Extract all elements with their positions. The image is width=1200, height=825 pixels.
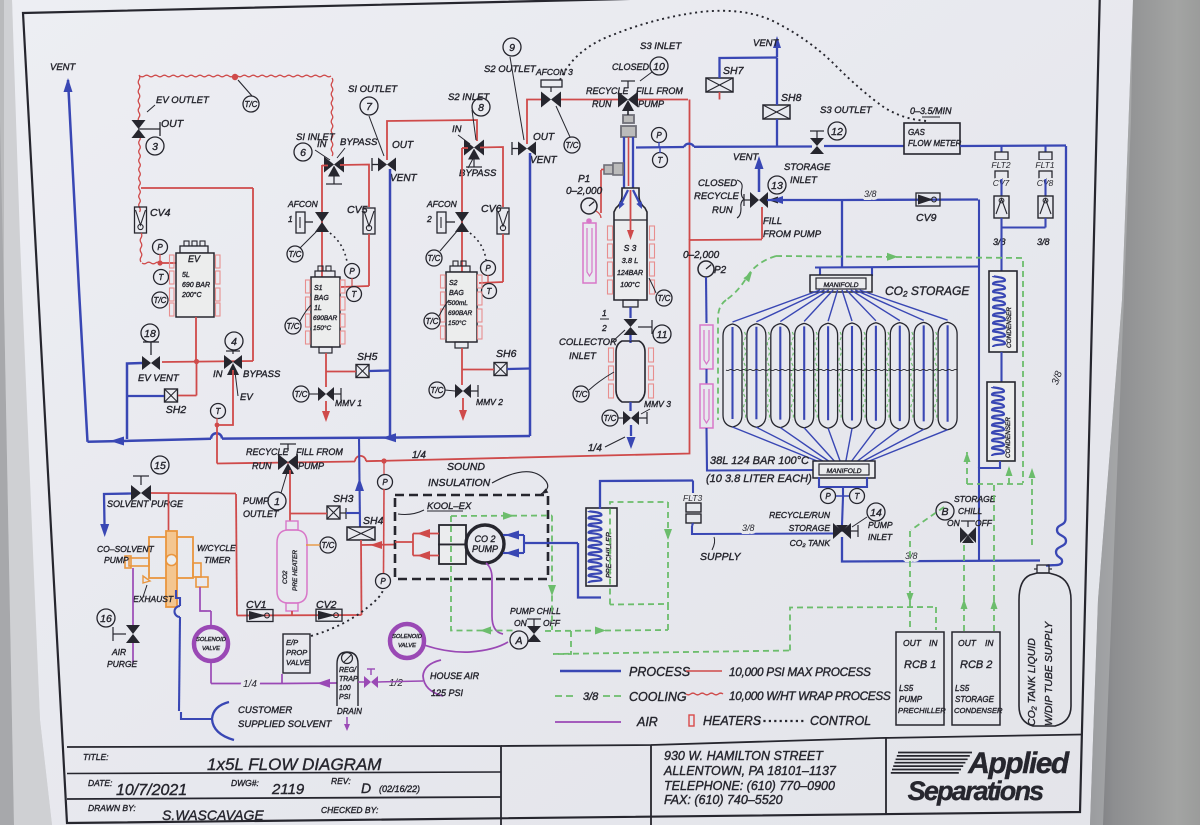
circle 15 (151, 456, 169, 474)
svg-text:PROCESS: PROCESS (629, 665, 691, 679)
pump blue arrows (514, 534, 524, 536)
solenoid2 from pump (486, 563, 503, 634)
circle A (510, 631, 528, 649)
svg-text:CV6: CV6 (481, 203, 502, 215)
CV5 check (363, 208, 375, 234)
svg-text:SH8: SH8 (781, 92, 802, 104)
svg-text:150°C: 150°C (448, 319, 466, 327)
svg-text:LS5: LS5 (955, 684, 970, 693)
svg-text:SUPPLY: SUPPLY (700, 551, 741, 563)
red tee to bypass (141, 187, 253, 189)
svg-text:AIR: AIR (636, 715, 658, 729)
EV vessel 5L (180, 246, 208, 253)
svg-text:IN: IN (985, 638, 994, 648)
valve 6 SI INLET (324, 157, 334, 173)
svg-text:CO₂ TANK: CO₂ TANK (790, 538, 831, 548)
AFCON1 control dots (330, 233, 347, 262)
P1 gauge line (600, 170, 602, 213)
svg-text:690BAR: 690BAR (313, 315, 338, 322)
pump block (439, 525, 466, 545)
svg-text:12: 12 (831, 126, 843, 138)
svg-text:DATE:: DATE: (88, 778, 113, 788)
storage supply drop (978, 267, 980, 469)
svg-text:PUMP: PUMP (298, 461, 324, 471)
svg-text:11: 11 (657, 329, 668, 341)
valve15 red (151, 492, 236, 495)
circle 6 (294, 143, 312, 161)
house air arc (423, 660, 443, 696)
valve 11 collector inlet (624, 319, 638, 327)
svg-text:FROM PUMP: FROM PUMP (763, 229, 822, 240)
svg-text:SH3: SH3 (333, 493, 354, 505)
svg-text:SUPPLIED SOLVENT: SUPPLIED SOLVENT (238, 719, 333, 730)
valve 4 stem (232, 351, 234, 354)
svg-text:690 BAR: 690 BAR (182, 282, 210, 289)
valve 1 recycle (278, 454, 288, 470)
P T insts S3 (652, 128, 667, 143)
svg-text:SOLENOID: SOLENOID (196, 637, 226, 643)
svg-text:BYPASS: BYPASS (459, 168, 497, 179)
svg-text:T/C: T/C (431, 386, 444, 395)
svg-text:S3 OUTLET: S3 OUTLET (820, 105, 873, 116)
CV4 check valve (135, 207, 147, 233)
svg-text:T/C: T/C (428, 254, 441, 263)
red fill drop (689, 100, 691, 241)
SH7 blue up (720, 58, 778, 79)
circle 8 (472, 98, 490, 116)
SH2 blue link (127, 395, 164, 397)
SH8 blue links (776, 58, 778, 105)
blue EV vent pipe (127, 363, 142, 439)
svg-text:ON: ON (947, 518, 961, 528)
liquid level zigzag (726, 369, 957, 370)
svg-text:VALVE: VALVE (202, 646, 220, 652)
svg-text:1x5L FLOW DIAGRAM: 1x5L FLOW DIAGRAM (207, 755, 382, 774)
manifold bottom box (813, 461, 875, 478)
collector tube magenta dot (586, 218, 592, 224)
svg-text:1: 1 (288, 214, 293, 224)
svg-text:SOUND: SOUND (447, 461, 485, 473)
SH6 heater (494, 363, 507, 376)
CO2 tank vessel (1019, 573, 1071, 726)
pump left air (132, 568, 134, 625)
svg-text:T/C: T/C (575, 390, 588, 399)
svg-text:PSI: PSI (339, 694, 350, 701)
circle 4 (225, 332, 243, 350)
valve1 down red (289, 470, 291, 521)
svg-text:P: P (825, 492, 831, 501)
SH7 red down (719, 92, 721, 100)
SH8 heater (763, 105, 790, 119)
svg-text:0–2,000: 0–2,000 (683, 250, 720, 261)
SH5 links (326, 371, 356, 373)
svg-text:RECYCLE: RECYCLE (246, 447, 290, 457)
svg-text:BYPASS: BYPASS (243, 369, 281, 380)
valve 3 EV OUTLET (132, 120, 146, 129)
svg-text:PUMP: PUMP (104, 555, 129, 565)
pump air out (200, 587, 207, 611)
svg-text:OUT: OUT (392, 140, 414, 151)
svg-text:HEATERS: HEATERS (703, 714, 762, 728)
svg-text:BAG: BAG (314, 295, 329, 302)
svg-text:125 PSI: 125 PSI (431, 688, 464, 698)
P inst EV (153, 240, 168, 255)
svg-text:1/4: 1/4 (243, 679, 257, 690)
SH5 heater (356, 365, 369, 378)
svg-text:2: 2 (601, 323, 607, 333)
condenser 2 (987, 382, 1015, 461)
svg-text:COLLECTOR: COLLECTOR (559, 337, 617, 348)
title block grid (67, 746, 501, 825)
svg-text:4: 4 (231, 336, 237, 348)
svg-text:SH7: SH7 (723, 65, 745, 77)
S3 fitting stack (623, 115, 634, 123)
circle 16 (97, 609, 115, 627)
MMV1 valve (318, 387, 326, 401)
svg-text:INLET: INLET (868, 532, 893, 542)
svg-text:FLT1: FLT1 (1035, 160, 1054, 170)
air to regtrap (282, 682, 337, 685)
svg-text:FLOW METER: FLOW METER (908, 139, 962, 148)
svg-text:PURGE: PURGE (107, 659, 138, 669)
svg-text:MMV 2: MMV 2 (476, 397, 503, 407)
VENT arrow SH7 (776, 45, 778, 58)
svg-text:2119: 2119 (271, 781, 305, 798)
CV line (237, 614, 362, 617)
svg-text:MMV 3: MMV 3 (644, 399, 671, 409)
svg-text:3/8: 3/8 (742, 523, 755, 533)
svg-text:DRAIN: DRAIN (337, 707, 362, 716)
gas flow meter box (904, 123, 960, 154)
svg-text:1/4: 1/4 (588, 443, 602, 454)
S2 bottom red (461, 348, 463, 385)
svg-text:VENT: VENT (390, 173, 418, 184)
svg-text:10,000 PSI MAX PROCESS: 10,000 PSI MAX PROCESS (729, 665, 871, 679)
svg-text:P: P (380, 577, 386, 586)
svg-text:3.8 L: 3.8 L (622, 256, 639, 265)
svg-text:14: 14 (870, 507, 882, 519)
circle 14 (867, 503, 885, 521)
circle 11 (653, 325, 671, 343)
valve 8 S2 INLET (464, 140, 474, 156)
P inst control (376, 574, 391, 589)
heat-wrapped line left (138, 75, 140, 122)
T/C instrument top (243, 96, 259, 112)
svg-text:EV: EV (188, 254, 201, 264)
pump return riser (359, 438, 360, 527)
svg-text:CO₂ TANK LIQUID: CO₂ TANK LIQUID (1026, 638, 1038, 726)
circle 18 (141, 324, 159, 342)
svg-text:CHILL: CHILL (958, 506, 982, 516)
FLT2 filter (1000, 146, 1002, 152)
svg-text:930 W. HAMILTON STREET: 930 W. HAMILTON STREET (664, 749, 824, 763)
svg-text:13: 13 (771, 180, 783, 192)
heat wrap below CV4 (140, 233, 142, 262)
svg-text:500mL: 500mL (448, 300, 468, 307)
svg-text:VALVE: VALVE (398, 643, 416, 649)
CV6 check (497, 208, 509, 234)
condenser feed (1000, 228, 1002, 272)
S1 inlet red (321, 165, 323, 278)
svg-text:RUN: RUN (252, 461, 272, 471)
circle 7 (360, 97, 378, 115)
valve B (960, 527, 968, 543)
svg-text:FLT3: FLT3 (683, 493, 702, 503)
heat-wrapped line top (140, 75, 331, 77)
svg-text:T/C: T/C (295, 390, 308, 399)
svg-text:CONDENSER: CONDENSER (1005, 417, 1012, 458)
EP air link (281, 674, 283, 684)
svg-text:FILL FROM: FILL FROM (296, 447, 343, 457)
S3 bottom stub (623, 300, 638, 307)
MMV3 outflow (630, 425, 632, 436)
tube down to manifold (707, 428, 819, 471)
manifold fan lines (733, 290, 821, 322)
svg-text:RECYCLE: RECYCLE (586, 86, 630, 96)
T/C preheater (320, 537, 336, 553)
svg-text:0–3.5/MIN: 0–3.5/MIN (910, 106, 952, 116)
T/C inst EV (152, 292, 168, 308)
svg-text:TITLE:: TITLE: (83, 752, 109, 762)
svg-text:3/8: 3/8 (993, 237, 1006, 247)
valve 4 IN BYPASS (224, 355, 233, 369)
svg-text:CUSTOMER: CUSTOMER (238, 705, 292, 716)
T inst S1 (347, 287, 362, 302)
chiller top blue (600, 481, 693, 510)
SH3 red link (290, 513, 327, 515)
customer solvent arc (212, 702, 234, 740)
svg-text:INSULATION: INSULATION (428, 477, 491, 489)
pre chiller box (586, 508, 617, 586)
svg-text:IN: IN (452, 124, 462, 135)
condenser out (979, 461, 1000, 561)
svg-text:REV:: REV: (331, 776, 351, 786)
T inst near valve4 (211, 404, 226, 419)
svg-text:CLOSED: CLOSED (698, 178, 737, 189)
svg-text:S1: S1 (314, 285, 323, 292)
red line y361 (162, 361, 253, 362)
svg-text:OUT: OUT (533, 132, 555, 143)
blue to meter (824, 145, 904, 147)
S2 PT line (479, 282, 503, 283)
svg-text:RCB 1: RCB 1 (904, 659, 936, 671)
svg-text:10: 10 (653, 61, 665, 73)
svg-text:SOLVENT PURGE: SOLVENT PURGE (107, 499, 184, 509)
svg-text:CV4: CV4 (150, 207, 171, 219)
T/C leader (238, 80, 252, 96)
svg-text:100°C: 100°C (620, 281, 640, 289)
T/C collector (573, 386, 589, 402)
svg-text:W/DIP TUBE SUPPLY: W/DIP TUBE SUPPLY (1043, 621, 1055, 726)
S2 to AFCON3 red (527, 100, 543, 145)
tank squiggle (1046, 146, 1066, 566)
SH2 red link (178, 395, 197, 397)
svg-text:CONDENSER: CONDENSER (954, 706, 1003, 715)
svg-text:VENT: VENT (530, 155, 558, 166)
svg-text:TELEPHONE: (610) 770–0900: TELEPHONE: (610) 770–0900 (664, 779, 835, 793)
SH6 links (462, 369, 494, 371)
svg-text:PUMP: PUMP (243, 496, 269, 506)
svg-text:INLET: INLET (569, 351, 597, 362)
svg-text:124BAR: 124BAR (617, 270, 643, 277)
circle 10 (650, 57, 668, 75)
valve 4 down red (217, 370, 233, 464)
T inst S2 (482, 284, 497, 299)
svg-text:COOLING: COOLING (629, 690, 687, 704)
valve 18 EV VENT (142, 356, 151, 370)
valve A pump chill (527, 626, 541, 634)
svg-text:3/8: 3/8 (905, 551, 918, 561)
MMV2 valve (455, 384, 463, 398)
co-solvent pump (149, 537, 193, 578)
svg-text:T/C: T/C (566, 141, 579, 150)
S1 PT line (341, 286, 369, 287)
supply 3/8 line (692, 526, 833, 534)
T/C AFCON1 (287, 246, 303, 262)
MMV2 outflow (462, 398, 464, 410)
svg-text:RECYCLE/RUN: RECYCLE/RUN (769, 510, 831, 520)
circle 13 (768, 176, 786, 194)
valve 7 blue vent (389, 169, 392, 437)
preheater down (291, 611, 293, 615)
SH2 heater (165, 389, 178, 402)
svg-text:PRE HEATER: PRE HEATER (292, 550, 299, 591)
storage 3/8 over (842, 198, 978, 201)
MMV1 outflow (325, 401, 327, 412)
svg-text:FAX: (610) 740–5520: FAX: (610) 740–5520 (664, 793, 783, 807)
svg-text:18: 18 (144, 328, 156, 340)
svg-text:OUT: OUT (161, 118, 185, 130)
svg-text:DWG#:: DWG#: (231, 778, 260, 788)
svg-text:BYPASS: BYPASS (340, 137, 378, 148)
storage feed drop (841, 200, 843, 268)
svg-text:P: P (349, 267, 355, 276)
svg-text:EV VENT: EV VENT (138, 373, 180, 384)
vent line left main (68, 80, 88, 442)
FLT3 filter (692, 481, 694, 504)
svg-text:GAS: GAS (908, 128, 926, 137)
T/C tap dot (232, 74, 238, 80)
svg-text:T/C: T/C (322, 541, 335, 550)
svg-text:CO–SOLVENT: CO–SOLVENT (97, 544, 154, 554)
svg-text:VALVE: VALVE (286, 658, 310, 667)
valve 7 S1 OUT/VENT (378, 158, 387, 172)
red quarter header (217, 462, 355, 464)
svg-text:SH5: SH5 (357, 351, 378, 363)
svg-text:CV5: CV5 (347, 204, 368, 216)
svg-text:10,000 W/HT WRAP PROCESS: 10,000 W/HT WRAP PROCESS (729, 689, 891, 703)
svg-text:LS5: LS5 (899, 684, 914, 693)
svg-text:3/8: 3/8 (1037, 237, 1050, 247)
EV bottom line (195, 317, 197, 361)
svg-text:FILL FROM: FILL FROM (636, 86, 683, 96)
svg-text:STORAGE: STORAGE (784, 162, 831, 173)
svg-text:0–2,000: 0–2,000 (566, 186, 603, 197)
svg-text:SOLENOID: SOLENOID (392, 634, 422, 640)
svg-text:A: A (514, 635, 522, 647)
svg-text:SI INLET: SI INLET (296, 132, 336, 143)
svg-text:P: P (157, 243, 163, 252)
green inter-bottle cooling (743, 332, 745, 420)
S1 wavy drop (331, 78, 333, 156)
svg-text:CONTROL: CONTROL (810, 714, 871, 728)
svg-text:CO 2: CO 2 (474, 534, 495, 544)
svg-text:IN: IN (317, 139, 327, 150)
valve 9 S2 OUT/VENT (518, 142, 527, 156)
circle 3 (146, 137, 164, 155)
S1 bottom red (325, 353, 327, 387)
circle 1 (268, 492, 286, 510)
rotameter tube 1 (700, 325, 713, 369)
svg-text:S3 INLET: S3 INLET (640, 41, 682, 52)
svg-text:BAG: BAG (449, 290, 464, 297)
P T storage (821, 489, 836, 504)
svg-text:10/7/2021: 10/7/2021 (116, 782, 187, 799)
svg-text:1/2: 1/2 (389, 678, 403, 689)
svg-text:P2: P2 (714, 265, 727, 276)
manifold bottom bracket (819, 477, 867, 487)
house air half valve (358, 681, 364, 683)
svg-text:PUMP: PUMP (868, 520, 893, 530)
S3 heaters (608, 226, 613, 240)
svg-text:REG/: REG/ (339, 667, 357, 674)
pump red arrows (413, 533, 439, 535)
svg-text:3/8: 3/8 (583, 691, 599, 703)
svg-text:OUT: OUT (903, 638, 922, 648)
svg-text:FLT2: FLT2 (991, 160, 1010, 170)
svg-text:MMV 1: MMV 1 (335, 398, 362, 408)
svg-text:38L 124 BAR 100°C: 38L 124 BAR 100°C (710, 455, 809, 467)
svg-text:1/4: 1/4 (412, 450, 426, 461)
T/C MMV3 (602, 410, 618, 426)
RCB1 box (896, 632, 944, 725)
svg-text:T/C: T/C (289, 250, 302, 259)
svg-text:AFCON 3: AFCON 3 (535, 67, 573, 77)
blue storage inlet line (767, 199, 842, 201)
svg-text:P: P (485, 264, 491, 273)
T/C S3 (656, 290, 672, 306)
T/C MMV2 (429, 382, 445, 398)
svg-text:MANIFOLD: MANIFOLD (823, 282, 858, 289)
T/C S2 (424, 313, 440, 329)
S1 to S2 red top (387, 120, 477, 160)
S2 bypass red (480, 147, 503, 207)
svg-text:5L: 5L (182, 272, 190, 279)
kool-ex dashed box (395, 495, 548, 579)
circle 12 (828, 122, 846, 140)
manifold top bracket (815, 267, 979, 268)
svg-text:W/CYCLE: W/CYCLE (197, 543, 236, 553)
svg-text:690BAR: 690BAR (448, 310, 473, 317)
filter junction (1000, 218, 1002, 228)
P inst S1 (345, 264, 360, 279)
T/C MMV1 (293, 386, 309, 402)
solenoid 1 (194, 627, 228, 661)
circle B (936, 502, 954, 520)
svg-text:EV OUTLET: EV OUTLET (156, 95, 210, 106)
S3 bottle (614, 188, 647, 300)
T/C AFCON3 leader (556, 106, 570, 137)
control EP to P (311, 590, 383, 636)
storage bottles x10 (723, 324, 742, 427)
P2 down blue (705, 277, 708, 323)
svg-text:P: P (656, 131, 662, 140)
svg-text:S 3: S 3 (624, 243, 637, 253)
svg-text:T/C: T/C (154, 296, 167, 305)
svg-text:FILL: FILL (763, 216, 782, 227)
svg-text:S2: S2 (449, 280, 458, 287)
svg-text:PUMP: PUMP (472, 544, 498, 554)
